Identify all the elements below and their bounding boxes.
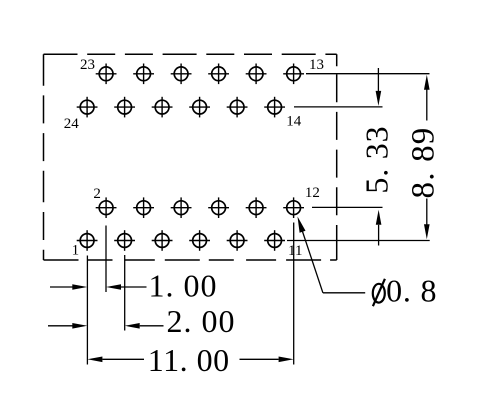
pad pin 6 [171,197,192,218]
dimension 2.00 left arrow [48,323,87,329]
svg-text:23: 23 [80,57,95,73]
dimension 2.00 right arrow [125,323,164,329]
dimension 11.00 left arrow [87,357,144,363]
dimension 1.00 left arrow [50,284,87,290]
svg-text:2: 2 [93,186,101,202]
pad pin 13 [283,64,304,85]
pad pin 21 [133,64,154,85]
pad pin 4 [133,197,154,218]
svg-text:5. 33: 5. 33 [358,126,394,194]
extension line from pin 3 column [124,255,126,331]
extension line from pin 11 row [287,240,430,242]
extension line from pin 2 column [105,226,107,293]
pad pin 19 [171,64,192,85]
pad pin 3 [114,230,135,251]
pad pin 9 [227,230,248,251]
pad pin 14 [264,97,285,118]
svg-text:24: 24 [64,116,79,132]
pad pin 20 [152,97,173,118]
svg-text:11. 00: 11. 00 [148,342,230,378]
pad pin 23 [96,64,117,85]
extension line from pin 13 row [306,73,430,75]
svg-text:1. 00: 1. 00 [149,267,218,303]
extension line from pin 14 row [294,106,383,108]
pad pin 1 [77,230,98,251]
pad pin 24 [77,97,98,118]
pad pin 11 [264,230,285,251]
pad pin 15 [246,64,267,85]
extension line from pin 12 row [312,206,383,208]
svg-text:2. 00: 2. 00 [167,303,236,339]
pad pin 5 [152,230,173,251]
pad pin 17 [208,64,229,85]
dimension 11.00 right arrow [240,357,294,363]
extension line from pin 1 column [86,256,88,365]
svg-text:11: 11 [288,243,302,259]
svg-text:8. 89: 8. 89 [406,127,442,199]
svg-text:12: 12 [305,185,320,201]
leader arrow to pad 12 (hole dia 0.8) [298,217,366,293]
svg-text:1: 1 [72,243,80,259]
dimension 5.33 upper arrow [376,68,382,106]
dimension 1.00 right arrow [106,284,147,290]
pad pin 7 [189,230,210,251]
pad pin 10 [246,197,267,218]
diameter symbol phi [373,279,385,306]
pad pin 8 [208,197,229,218]
extension line from pin 12 column [293,223,295,365]
dimension 8.89 line and arrows [424,75,430,240]
pad pin 22 [114,97,135,118]
component body outline (dashed rectangle) [44,54,337,260]
svg-text:14: 14 [286,114,302,130]
pad pin 2 [96,197,117,218]
pad pin 12 [283,197,304,218]
svg-text:13: 13 [309,57,324,73]
pad pin 18 [189,97,210,118]
svg-text:0. 8: 0. 8 [386,273,437,309]
pad pin 16 [227,97,248,118]
dimension 5.33 lower arrow [376,210,382,246]
